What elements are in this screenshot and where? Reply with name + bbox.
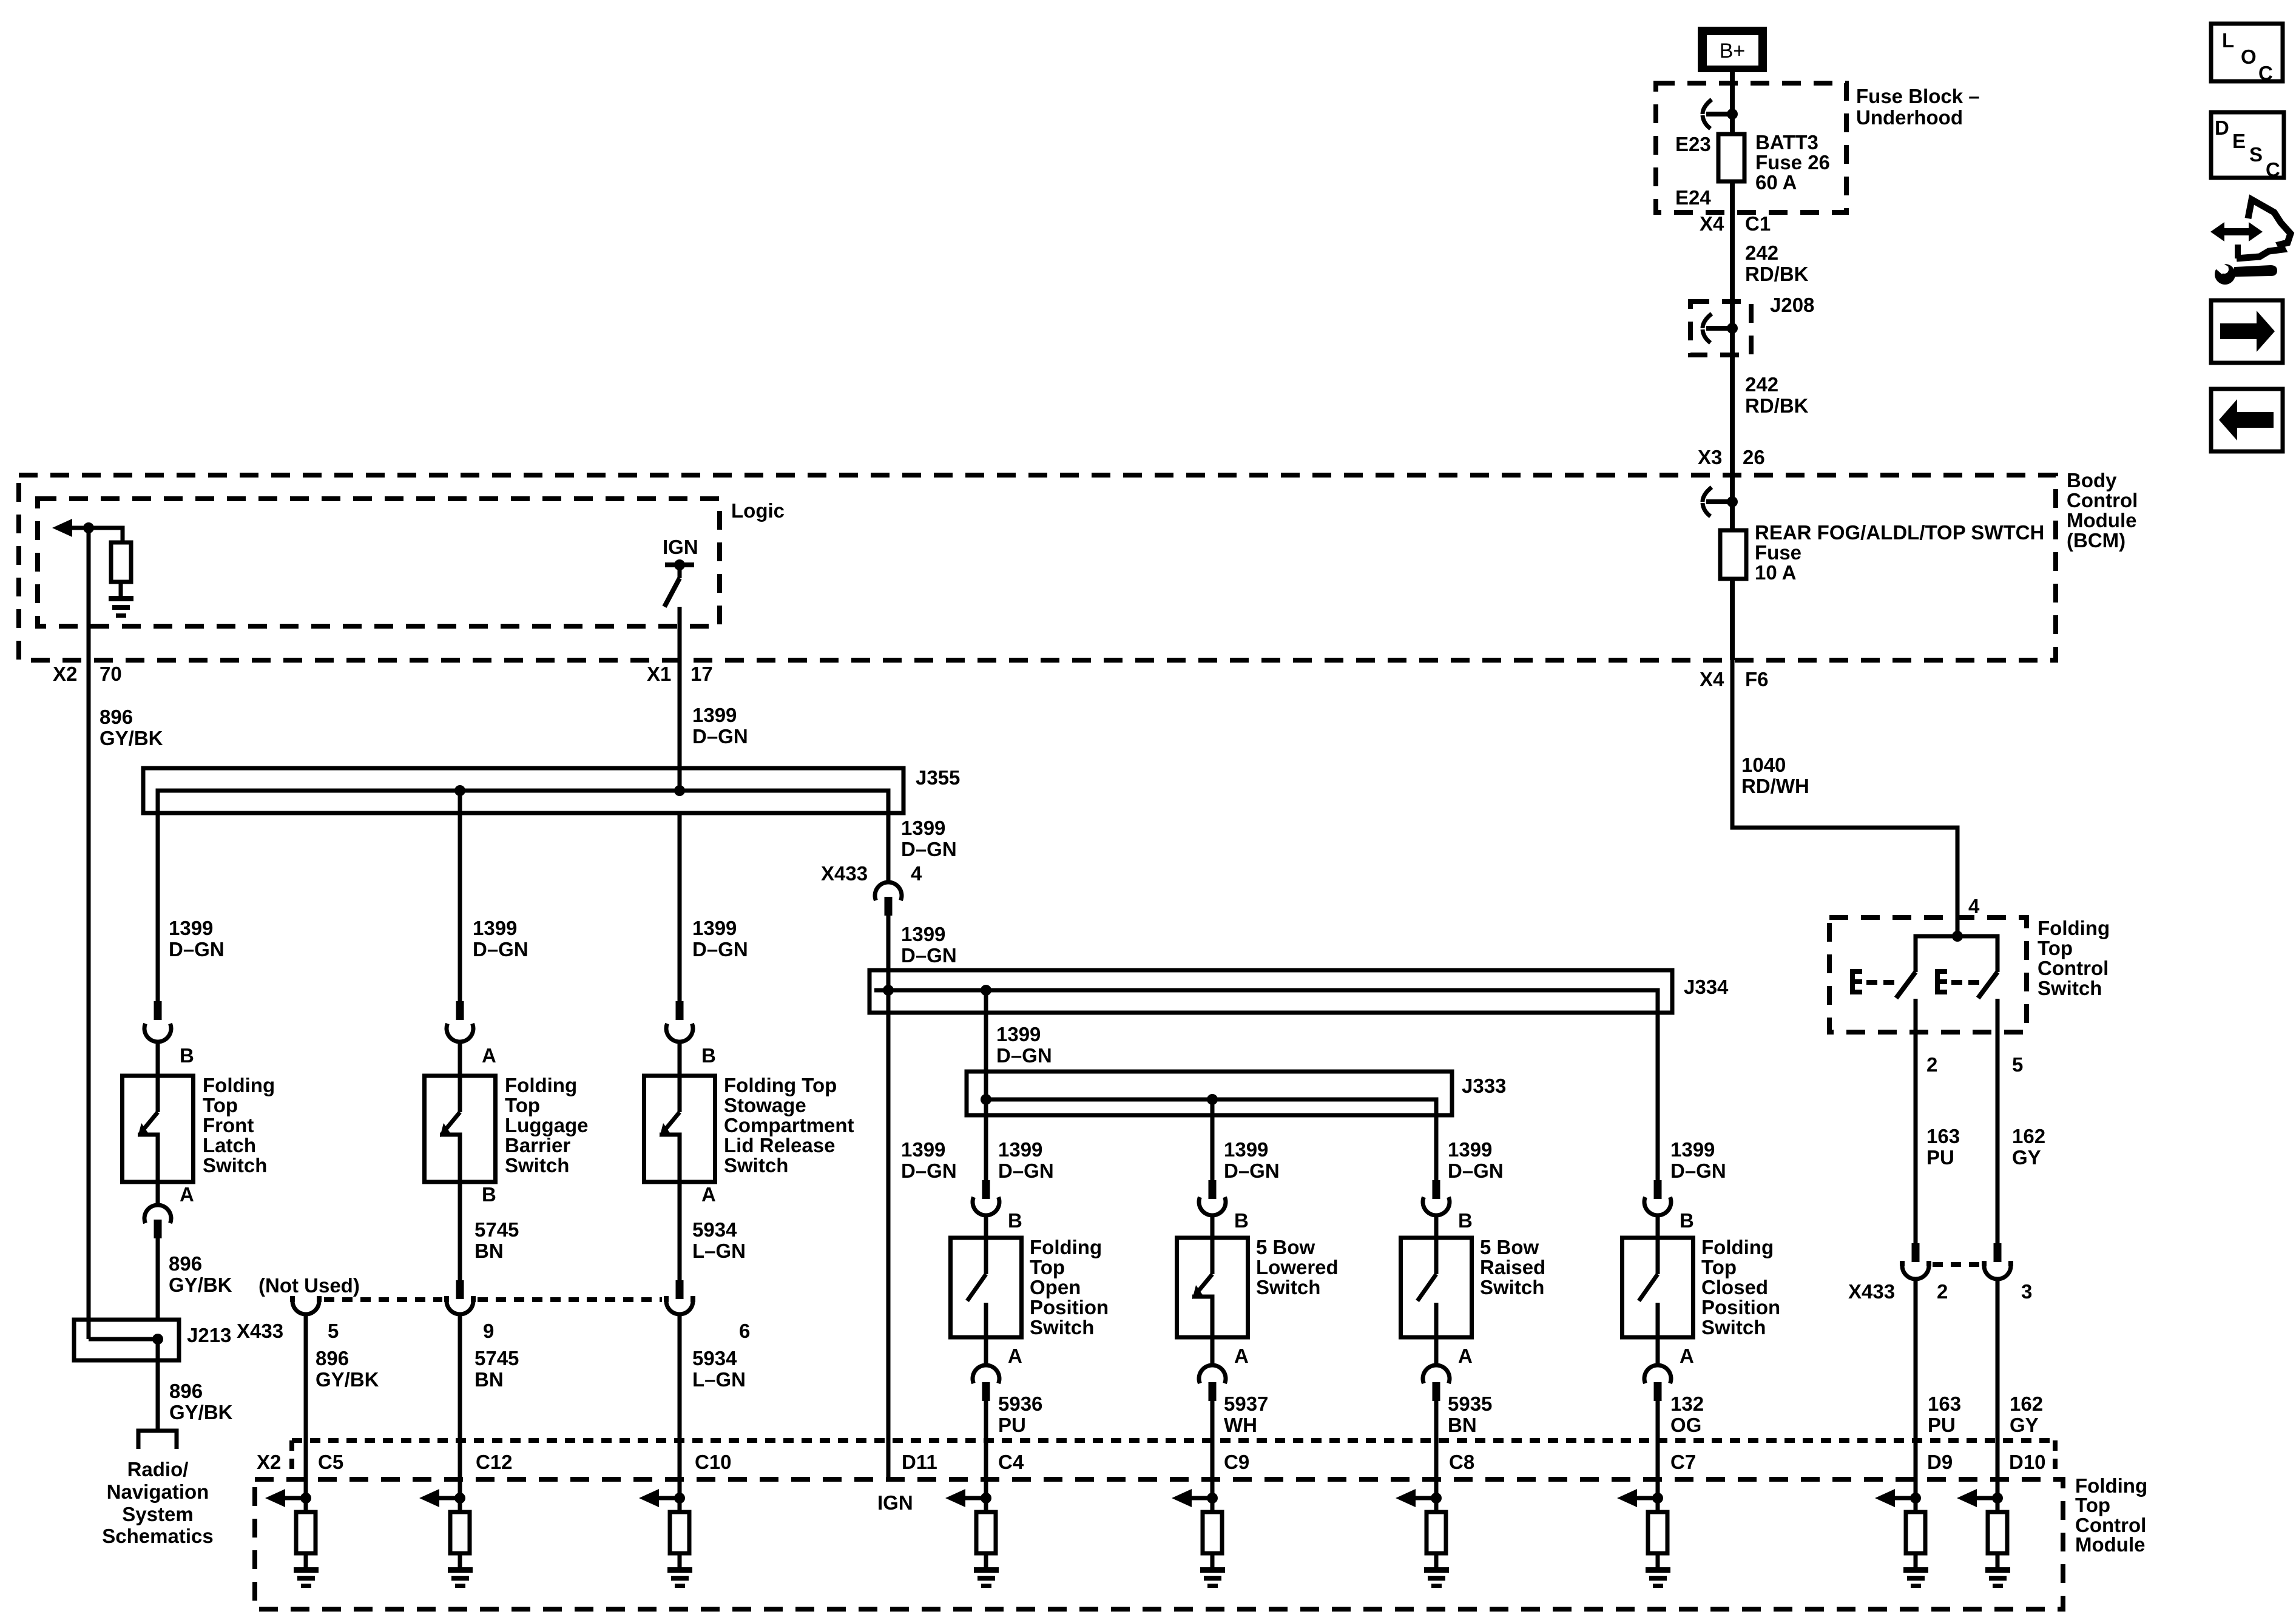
svg-text:C8: C8 [1449, 1451, 1474, 1473]
connector B front latch [144, 1001, 171, 1076]
svg-text:4: 4 [1968, 895, 1980, 917]
wire fuse block to J208 [1730, 212, 1735, 302]
svg-text:Folding: Folding [2038, 917, 2110, 939]
svg-text:D–GN: D–GN [901, 838, 957, 860]
svg-text:GY/BK: GY/BK [169, 1401, 233, 1423]
label Radio Navigation System Schematics [102, 1458, 213, 1547]
label J355 [916, 766, 960, 789]
connector B 5 bow raised [1423, 1180, 1450, 1238]
svg-text:1399: 1399 [169, 917, 213, 939]
svg-text:D–GN: D–GN [901, 1160, 957, 1182]
svg-text:Fuse Block –: Fuse Block – [1856, 85, 1980, 107]
svg-text:L–GN: L–GN [692, 1368, 746, 1391]
svg-text:BN: BN [1448, 1414, 1477, 1436]
label 5745 BN upper [474, 1218, 519, 1262]
svg-text:Control: Control [2067, 489, 2138, 511]
svg-text:X433: X433 [821, 862, 868, 885]
switch control left contact [1896, 972, 1916, 998]
label 1399 D-GN open position [998, 1138, 1054, 1182]
icon left arrow box [2211, 389, 2283, 451]
svg-text:Luggage: Luggage [505, 1114, 589, 1136]
label pin 5 [2012, 1053, 2023, 1076]
label 5745 BN to C12 [474, 1347, 519, 1391]
label 5935 BN [1448, 1393, 1492, 1436]
svg-text:163: 163 [1926, 1125, 1960, 1147]
label pin 6 [739, 1320, 750, 1342]
module input C12 [419, 1489, 473, 1588]
connector B closed position [1644, 1180, 1671, 1238]
node J355 tap at 758 [454, 785, 465, 796]
label B closed position [1680, 1209, 1694, 1232]
wire X433-5 to module C5 [304, 1314, 308, 1498]
module input C7 [1617, 1489, 1670, 1588]
connector row X2 dotted line [292, 1440, 2055, 1473]
label X3 26 [1698, 446, 1765, 468]
label 1399 D-GN above J355 [692, 704, 748, 748]
svg-text:RD/BK: RD/BK [1745, 394, 1809, 417]
svg-text:D11: D11 [902, 1451, 937, 1473]
wire closed position A to module C7 [1656, 1401, 1660, 1498]
svg-text:D–GN: D–GN [1670, 1160, 1726, 1182]
node J333 tap at 1625 [981, 1094, 991, 1105]
label 5 Bow Raised Switch [1480, 1236, 1545, 1298]
svg-text:Navigation: Navigation [107, 1480, 209, 1503]
wire J333 end to 5 bow raised B [1434, 1115, 1439, 1180]
svg-text:70: 70 [100, 663, 122, 685]
label 162 GY lower [2010, 1393, 2043, 1436]
svg-text:Switch: Switch [1030, 1316, 1094, 1338]
svg-text:D10: D10 [2009, 1451, 2046, 1473]
svg-text:1399: 1399 [901, 923, 945, 945]
svg-text:2: 2 [1926, 1053, 1937, 1076]
wire logic arrow node down to X2 70 [87, 528, 91, 660]
module input C4 [945, 1489, 999, 1588]
svg-text:Switch: Switch [1256, 1276, 1320, 1298]
svg-text:2: 2 [1937, 1280, 1948, 1303]
svg-text:Folding Top: Folding Top [724, 1074, 837, 1096]
label D9 [1927, 1451, 1953, 1473]
svg-text:5936: 5936 [998, 1393, 1042, 1415]
splice pack J355 [143, 768, 903, 1001]
svg-text:E23: E23 [1675, 133, 1711, 155]
wire control switch pole bar [1916, 936, 1997, 972]
svg-text:B: B [1458, 1209, 1473, 1232]
resistor in logic box [111, 542, 131, 582]
svg-text:1399: 1399 [1448, 1138, 1492, 1161]
label B open position [1008, 1209, 1022, 1232]
label 1399 D-GN front latch column [169, 917, 225, 960]
switch 5 bow lowered [1177, 1238, 1248, 1337]
wire J355 to front latch B [156, 887, 160, 1001]
label Folding Top Open Position Switch [1030, 1236, 1109, 1338]
label B luggage barrier [482, 1183, 496, 1206]
label 1399 D-GN 5 bow raised [1448, 1138, 1504, 1182]
off-page symbol to radio navigation [138, 1431, 177, 1449]
svg-text:Top: Top [1030, 1256, 1065, 1278]
splice J213 box [74, 1320, 179, 1360]
svg-text:1399: 1399 [692, 704, 737, 726]
svg-text:System: System [122, 1503, 193, 1525]
wire B+ to fuse block [1730, 72, 1735, 134]
wire J333 to 5 bow lowered B [1210, 1099, 1215, 1180]
label Logic [731, 499, 785, 522]
svg-text:A: A [701, 1183, 716, 1206]
switch IGN in logic box [663, 536, 698, 607]
connector X433 pin 6 [664, 1280, 695, 1314]
connector X433 pin 5 not used [290, 1296, 322, 1314]
label X2 module [257, 1451, 281, 1473]
svg-text:5745: 5745 [474, 1218, 519, 1241]
wire J334 to J333 [984, 990, 988, 1099]
label C8 [1449, 1451, 1474, 1473]
connector B stowage [666, 1001, 693, 1076]
fuse BATT3 Fuse 26 60A [1718, 134, 1744, 212]
label Fuse Block - Underhood [1856, 85, 1980, 129]
svg-text:C5: C5 [318, 1451, 343, 1473]
svg-text:GY: GY [2010, 1414, 2039, 1436]
node J334 tap at 1464 [883, 985, 894, 996]
label A 5 bow lowered [1234, 1345, 1249, 1367]
label X4 F6 [1700, 668, 1769, 690]
svg-text:C1: C1 [1745, 212, 1771, 235]
label Folding Top Control Module [2075, 1474, 2147, 1556]
svg-text:D–GN: D–GN [1224, 1160, 1280, 1182]
svg-text:PU: PU [1928, 1414, 1956, 1436]
label 896 GY/BK below J213 [169, 1380, 233, 1423]
node control switch common [1952, 931, 1963, 942]
wire 896 GY/BK from BCM X2-70 to J213 [87, 660, 91, 1339]
svg-text:26: 26 [1743, 446, 1765, 468]
node J334 tap at 1625 [981, 985, 991, 996]
svg-text:Fuse: Fuse [1755, 541, 1801, 564]
label A 5 bow raised [1458, 1345, 1473, 1367]
svg-text:(BCM): (BCM) [2067, 529, 2125, 552]
label 1399 D-GN stowage column [692, 917, 748, 960]
icon right arrow box [2211, 300, 2283, 363]
svg-text:Top: Top [2038, 937, 2073, 959]
connector A open position [973, 1337, 999, 1401]
svg-text:F6: F6 [1745, 668, 1769, 690]
svg-text:Body: Body [2067, 469, 2117, 491]
wire 5 bow raised A to module C8 [1434, 1401, 1439, 1498]
node junction in J213 [152, 1334, 163, 1345]
svg-text:J333: J333 [1462, 1075, 1506, 1097]
dashed harness line X433 left [324, 1297, 662, 1302]
node junction at logic arrow [83, 522, 94, 533]
svg-text:J355: J355 [916, 766, 960, 789]
wire stowage A to X433-6 [678, 1182, 682, 1280]
svg-text:X433: X433 [237, 1320, 283, 1342]
folding top control module dashed box [255, 1479, 2063, 1609]
svg-text:BN: BN [474, 1368, 504, 1391]
svg-text:A: A [1234, 1345, 1249, 1367]
label X1 17 [647, 663, 713, 685]
svg-text:D–GN: D–GN [473, 938, 528, 960]
svg-text:1399: 1399 [998, 1138, 1042, 1161]
svg-text:C4: C4 [998, 1451, 1024, 1473]
label 896 GY/BK front latch column [169, 1252, 232, 1296]
svg-text:242: 242 [1745, 373, 1778, 396]
svg-text:Folding: Folding [1701, 1236, 1774, 1258]
svg-text:Switch: Switch [203, 1154, 267, 1176]
svg-text:IGN: IGN [877, 1491, 913, 1514]
svg-text:B: B [482, 1183, 496, 1206]
svg-text:Switch: Switch [724, 1154, 788, 1176]
label X433 pin4 [821, 862, 868, 885]
module input C9 [1172, 1489, 1225, 1588]
label C12 [476, 1451, 513, 1473]
terminal hook at fuse E23 [1703, 100, 1738, 129]
label 5937 WH [1224, 1393, 1268, 1436]
connector X433 pin 4 [875, 882, 902, 916]
wire open position A to module C4 [984, 1401, 988, 1498]
label 1399 D-GN between J334 J333 [996, 1023, 1052, 1067]
svg-text:S: S [2249, 143, 2263, 166]
label C5 [318, 1451, 343, 1473]
svg-text:J334: J334 [1684, 976, 1729, 998]
svg-text:WH: WH [1224, 1414, 1257, 1436]
svg-text:E: E [2232, 130, 2246, 152]
svg-text:A: A [180, 1183, 194, 1206]
svg-text:162: 162 [2010, 1393, 2043, 1415]
svg-text:C10: C10 [695, 1451, 732, 1473]
label B front latch [180, 1044, 194, 1067]
svg-text:L–GN: L–GN [692, 1240, 746, 1262]
label IGN module input [877, 1491, 913, 1514]
label Folding Top Luggage Barrier Switch [505, 1074, 589, 1176]
svg-text:C: C [2266, 158, 2280, 181]
svg-text:C: C [2258, 62, 2273, 84]
svg-text:1399: 1399 [1670, 1138, 1715, 1161]
label 896 GY/BK to C5 [316, 1347, 379, 1391]
svg-text:A: A [1008, 1345, 1022, 1367]
label D10 [2009, 1451, 2046, 1473]
svg-text:B: B [1234, 1209, 1249, 1232]
wire front latch A to J213 [156, 1238, 160, 1320]
svg-text:PU: PU [1926, 1146, 1954, 1169]
wire IGN switch down to X1 17 [678, 607, 682, 660]
dashed harness line X433 right [1933, 1262, 1980, 1267]
module input D10 [1957, 1489, 2010, 1588]
label pin 4 control switch [1968, 895, 1980, 917]
svg-text:Top: Top [2075, 1494, 2110, 1516]
svg-text:896: 896 [169, 1380, 203, 1402]
module input D9 [1875, 1489, 1928, 1588]
svg-text:X1: X1 [647, 663, 671, 685]
svg-text:BATT3: BATT3 [1755, 131, 1818, 154]
svg-text:Stowage: Stowage [724, 1094, 806, 1116]
svg-text:5: 5 [2012, 1053, 2023, 1076]
splice pack J333 [967, 1072, 1452, 1180]
svg-text:B: B [1008, 1209, 1022, 1232]
label pin 4 [911, 862, 922, 885]
fuse block underhood dashed box [1656, 83, 1846, 212]
module input C10 [639, 1489, 692, 1588]
svg-text:5937: 5937 [1224, 1393, 1268, 1415]
module input C8 [1396, 1489, 1449, 1588]
svg-text:896: 896 [169, 1252, 202, 1275]
svg-text:(Not Used): (Not Used) [258, 1274, 360, 1297]
label 5934 L-GN upper [692, 1218, 746, 1262]
svg-text:Switch: Switch [1480, 1276, 1544, 1298]
svg-text:D–GN: D–GN [1448, 1160, 1504, 1182]
svg-text:Switch: Switch [1701, 1316, 1766, 1338]
svg-text:Latch: Latch [203, 1134, 256, 1156]
label J334 [1684, 976, 1729, 998]
svg-text:C9: C9 [1224, 1451, 1249, 1473]
label B 5 bow raised [1458, 1209, 1473, 1232]
wire 5 bow lowered A to module C9 [1210, 1401, 1215, 1498]
switch folding top luggage barrier [425, 1076, 496, 1182]
svg-text:Top: Top [1701, 1256, 1737, 1278]
svg-text:PU: PU [998, 1414, 1026, 1436]
label Body Control Module (BCM) [2067, 469, 2138, 552]
label 1399 D-GN to D11 [901, 1138, 957, 1182]
label Folding Top Stowage Compartment Lid Release Switch [724, 1074, 854, 1176]
connector X433 pin 2 [1900, 1243, 1931, 1279]
connector A closed position [1644, 1337, 1671, 1401]
wire X433-2 to module D9 [1914, 1279, 1918, 1498]
label 242 RD/BK lower [1745, 373, 1809, 417]
label pin 2 [1926, 1053, 1937, 1076]
node J333 tap at 1998 [1207, 1094, 1218, 1105]
label 1399 D-GN 5 bow lowered [1224, 1138, 1280, 1182]
svg-text:A: A [482, 1044, 496, 1067]
svg-text:X2: X2 [257, 1451, 281, 1473]
svg-text:Folding: Folding [203, 1074, 275, 1096]
wire J355 to stowage B [678, 813, 682, 1001]
svg-text:RD/WH: RD/WH [1741, 775, 1809, 797]
svg-text:Folding: Folding [505, 1074, 577, 1096]
svg-text:Switch: Switch [505, 1154, 569, 1176]
arrow out left in logic box [52, 519, 89, 537]
connector A luggage barrier [447, 1001, 473, 1076]
connector A 5 bow lowered [1199, 1337, 1226, 1401]
label 896 GY/BK left column [100, 706, 163, 749]
svg-text:B: B [701, 1044, 716, 1067]
label B stowage [701, 1044, 716, 1067]
label 1399 D-GN luggage column [473, 917, 528, 960]
svg-text:X2: X2 [53, 663, 77, 685]
label pin 2 lower [1937, 1280, 1948, 1303]
svg-text:Folding: Folding [1030, 1236, 1102, 1258]
svg-text:60 A: 60 A [1755, 171, 1797, 194]
svg-text:D–GN: D–GN [692, 938, 748, 960]
svg-text:5745: 5745 [474, 1347, 519, 1369]
svg-text:896: 896 [316, 1347, 349, 1369]
label pin 9 [483, 1320, 494, 1342]
svg-text:3: 3 [2021, 1280, 2032, 1303]
svg-text:5935: 5935 [1448, 1393, 1492, 1415]
svg-text:5: 5 [328, 1320, 339, 1342]
svg-text:C7: C7 [1670, 1451, 1696, 1473]
label A front latch [180, 1183, 194, 1206]
svg-text:Schematics: Schematics [102, 1525, 213, 1547]
svg-text:J208: J208 [1770, 294, 1814, 316]
svg-text:X4: X4 [1700, 668, 1724, 690]
label 242 RD/BK upper [1745, 241, 1809, 285]
svg-text:J213: J213 [187, 1324, 231, 1346]
svg-text:Top: Top [505, 1094, 540, 1116]
label 163 PU lower [1928, 1393, 1961, 1436]
icon harness wrench [2210, 200, 2291, 285]
label A closed position [1680, 1345, 1694, 1367]
label pin 5 [328, 1320, 339, 1342]
svg-text:O: O [2241, 46, 2257, 68]
detent E left [1850, 969, 1894, 994]
svg-text:5934: 5934 [692, 1218, 737, 1241]
svg-text:Closed: Closed [1701, 1276, 1768, 1298]
svg-text:132: 132 [1670, 1393, 1704, 1415]
label 5936 PU [998, 1393, 1042, 1436]
svg-text:1399: 1399 [692, 917, 737, 939]
svg-text:Open: Open [1030, 1276, 1081, 1298]
svg-text:X3: X3 [1698, 446, 1722, 468]
svg-text:C12: C12 [476, 1451, 513, 1473]
svg-text:17: 17 [690, 663, 713, 685]
label X433 right [1848, 1280, 1895, 1303]
wire 1040 RD/WH BCM to control switch [1732, 660, 1957, 936]
svg-text:OG: OG [1670, 1414, 1701, 1436]
switch folding top open position [951, 1238, 1022, 1337]
label D11 [902, 1451, 937, 1473]
svg-text:Position: Position [1030, 1296, 1109, 1318]
svg-text:D–GN: D–GN [692, 725, 748, 748]
svg-text:D9: D9 [1927, 1451, 1953, 1473]
label J333 [1462, 1075, 1506, 1097]
wire 1399 D-GN from BCM X1-17 to J355 [678, 660, 682, 791]
switch 5 bow raised [1401, 1238, 1472, 1337]
svg-text:4: 4 [911, 862, 922, 885]
label 1399 D-GN above X433-4 [901, 817, 957, 860]
svg-text:5934: 5934 [692, 1347, 737, 1369]
svg-text:A: A [1680, 1345, 1694, 1367]
wire X433-9 to module C12 [458, 1314, 462, 1498]
svg-text:B: B [180, 1044, 194, 1067]
label BATT3 Fuse 26 60 A [1755, 131, 1830, 194]
svg-text:B: B [1680, 1209, 1694, 1232]
svg-text:Control: Control [2038, 957, 2109, 979]
svg-text:GY/BK: GY/BK [169, 1274, 232, 1296]
svg-text:Module: Module [2075, 1533, 2145, 1556]
svg-text:Front: Front [203, 1114, 254, 1136]
svg-text:Logic: Logic [731, 499, 785, 522]
svg-text:RD/BK: RD/BK [1745, 263, 1809, 285]
svg-text:GY: GY [2012, 1146, 2041, 1169]
wire X433-4 to J334 [886, 916, 891, 990]
svg-text:Lid Release: Lid Release [724, 1134, 835, 1156]
svg-text:1399: 1399 [1224, 1138, 1268, 1161]
label B 5 bow lowered [1234, 1209, 1249, 1232]
switch folding top closed position [1622, 1238, 1693, 1337]
svg-text:1040: 1040 [1741, 754, 1786, 776]
svg-text:5 Bow: 5 Bow [1480, 1236, 1539, 1258]
svg-text:X4: X4 [1700, 212, 1724, 235]
svg-text:X433: X433 [1848, 1280, 1895, 1303]
wire X433-3 to module D10 [1996, 1279, 2000, 1498]
svg-text:5 Bow: 5 Bow [1256, 1236, 1315, 1258]
svg-text:162: 162 [2012, 1125, 2045, 1147]
svg-text:D–GN: D–GN [998, 1160, 1054, 1182]
svg-text:D: D [2215, 116, 2229, 139]
svg-text:BN: BN [474, 1240, 504, 1262]
svg-text:Barrier: Barrier [505, 1134, 570, 1156]
svg-text:1399: 1399 [901, 1138, 945, 1161]
connector X433 pin 3 [1982, 1243, 2013, 1279]
label C9 [1224, 1451, 1249, 1473]
detent E right [1935, 969, 1979, 994]
svg-text:Fuse 26: Fuse 26 [1755, 151, 1830, 174]
